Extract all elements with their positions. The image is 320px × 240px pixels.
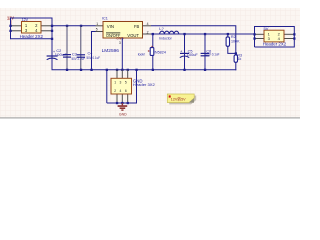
- wire ground loop right: [136, 70, 138, 104]
- wire ground loop bottom: [107, 102, 137, 104]
- svg-text:2: 2: [114, 89, 116, 93]
- svg-text:100K: 100K: [231, 40, 240, 44]
- svg-text:6: 6: [125, 89, 127, 93]
- svg-text:12V转5V: 12V转5V: [171, 97, 186, 102]
- wire C3 vertical: [66, 26, 68, 70]
- svg-text:R2: R2: [231, 35, 236, 39]
- wire FB net: [151, 26, 236, 54]
- junction dot VOUT/diode: [152, 33, 154, 35]
- junction dot C6 top: [204, 33, 206, 35]
- wire ground loop left: [106, 70, 108, 103]
- diode red tick 2: [151, 46, 152, 47]
- svg-text:look!: look!: [138, 52, 145, 57]
- capacitor C3: [63, 52, 85, 61]
- pins J3: [255, 34, 295, 38]
- svg-text:FB: FB: [134, 24, 139, 29]
- svg-text:100uF: 100uF: [187, 53, 198, 57]
- inductor L?: [159, 26, 179, 41]
- pins J2 top: [117, 70, 128, 79]
- svg-text:2: 2: [147, 30, 149, 34]
- pin J1-1: [11, 25, 22, 27]
- svg-text:1k: 1k: [238, 57, 242, 61]
- svg-text:IN5824: IN5824: [154, 49, 167, 54]
- svg-text:1: 1: [96, 22, 98, 26]
- pin IC1-2 VOUT: [143, 33, 152, 35]
- svg-text:12V: 12V: [22, 18, 29, 22]
- wire diode branch lower: [152, 55, 154, 69]
- J3 loop bottom: [255, 46, 295, 48]
- capacitor C6: [201, 50, 220, 57]
- wire J1 loop left: [10, 18, 12, 40]
- IC1 pin name ON/OFF: [106, 33, 121, 38]
- svg-text:4: 4: [120, 89, 122, 93]
- power port 12V: [7, 15, 14, 24]
- svg-text:3: 3: [119, 41, 121, 45]
- wire ground rail: [52, 69, 237, 71]
- svg-text:5V: 5V: [264, 26, 269, 31]
- pin J1-4: [41, 30, 52, 32]
- op-amp U1 : regulator IC1 LM2596 body: [103, 22, 143, 39]
- svg-text:Header 2X2: Header 2X2: [263, 42, 287, 47]
- svg-text:LM2596: LM2596: [102, 48, 120, 53]
- svg-text:Header 2X2: Header 2X2: [20, 34, 44, 39]
- svg-text:3: 3: [120, 81, 122, 85]
- ground symbol: [118, 103, 128, 111]
- J1 pin numbers: [25, 23, 38, 33]
- svg-text:4: 4: [147, 22, 149, 26]
- junction dot C4 top: [80, 25, 82, 27]
- junction dot FB tap: [235, 52, 237, 54]
- window bottom edge line: [0, 117, 300, 118]
- J3 loop right: [293, 26, 295, 48]
- capacitor C2: [47, 49, 69, 60]
- wire diode branch upper: [152, 34, 154, 48]
- svg-text:VOUT: VOUT: [127, 33, 139, 38]
- junction dot C5 top: [183, 33, 185, 35]
- J3 loop left: [254, 26, 256, 47]
- wire ON/OFF to ground rail: [92, 32, 96, 70]
- pins J2 bottom: [117, 94, 128, 103]
- wire C2 vertical / J1 loop right: [51, 18, 53, 70]
- wire R2 top stub: [227, 34, 229, 37]
- pin J1-3: [11, 30, 22, 32]
- junction dot C3 top: [66, 25, 68, 27]
- resistor R3 body: [234, 55, 237, 62]
- svg-text:5: 5: [125, 81, 127, 85]
- svg-text:C3: C3: [72, 52, 77, 56]
- diode D? IN5824 body: [150, 48, 154, 56]
- J2 pin numbers: [114, 81, 127, 94]
- connector J3 body: [264, 30, 284, 42]
- connector J2 (Header 3X2) body: [111, 78, 132, 94]
- svg-text:VIN: VIN: [107, 24, 114, 29]
- diode red designator tick: [148, 50, 149, 51]
- pin IC1-5 ON/OFF: [96, 31, 104, 33]
- capacitor C4: [77, 51, 100, 60]
- wire C5 vertical: [184, 34, 186, 70]
- junction dots J3: [253, 33, 295, 40]
- wire R3 top stub: [235, 53, 237, 55]
- pin IC1-1 VIN: [96, 25, 104, 27]
- svg-text:GND: GND: [119, 111, 127, 116]
- wire R3 bottom: [235, 62, 237, 70]
- note callout 12V to 5V: [167, 94, 196, 104]
- svg-text:1: 1: [114, 81, 116, 85]
- J3 pin numbers: [268, 32, 281, 41]
- capacitor C5: [180, 49, 198, 58]
- wire J1 loop top: [11, 17, 53, 19]
- ground rail junction dots: [66, 69, 206, 71]
- wire R2 bottom to FB tap: [228, 46, 236, 53]
- pin IC1-3 GND wire down: [121, 38, 123, 70]
- connector J3 (5V header) loop top: [255, 26, 295, 28]
- wire C4 vertical: [80, 26, 82, 70]
- junction dots J1: [9, 25, 53, 40]
- svg-text:L?: L?: [159, 26, 164, 31]
- pin IC1-4 FB: [143, 25, 152, 27]
- junction dots J2 bottom rail: [116, 102, 129, 104]
- svg-text:50V 0.1uF: 50V 0.1uF: [87, 56, 101, 60]
- svg-text:50V 0.1uF: 50V 0.1uF: [206, 53, 220, 57]
- svg-text:IC1: IC1: [102, 17, 108, 21]
- svg-text:Inductor: Inductor: [159, 37, 172, 41]
- wire J1 loop bottom: [11, 38, 53, 40]
- wire VIN rail: [52, 25, 96, 27]
- junction dot R2 top: [227, 33, 229, 35]
- resistor R2 body: [226, 37, 229, 46]
- svg-text:5: 5: [96, 28, 98, 32]
- pin J1-2: [41, 25, 52, 27]
- svg-text:Header 3X2: Header 3X2: [133, 83, 155, 87]
- wire VOUT node: [151, 33, 255, 35]
- wire C6 vertical: [204, 34, 206, 70]
- connector J1 (Header 2X2) body: [22, 22, 42, 34]
